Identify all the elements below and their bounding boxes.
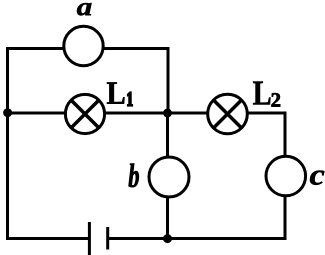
wire: top horizontal branch: [6, 47, 170, 50]
label a: [77, 3, 92, 15]
wire: left vertical branch: [6, 47, 9, 240]
meter b (circle): [149, 157, 189, 197]
wire: middle horizontal branch: [6, 112, 285, 115]
label L2 - subscript 2: [272, 93, 281, 106]
battery cell: short plate: [106, 227, 109, 250]
node: junction on bottom branch: [163, 234, 172, 243]
node J1: junction of L1/L2/b: [163, 109, 172, 118]
wire: bottom left segment to battery: [6, 237, 89, 240]
wire: right vertical branch: [284, 112, 287, 241]
wire: vertical from top branch to node J1: [167, 47, 170, 113]
wire: branch through meter b: [166, 113, 169, 239]
lamp L2 (circle with X): [208, 94, 248, 134]
label L1 - letter L: [107, 82, 125, 103]
meter a (circle): [64, 26, 103, 65]
battery cell: long plate: [88, 222, 91, 255]
lamp L1 (circle with X): [65, 94, 104, 133]
meter c (circle): [266, 156, 306, 196]
wire: bottom right segment from battery: [108, 237, 287, 240]
label c: [310, 170, 324, 184]
node: junction dot on left branch: [3, 108, 12, 117]
label b: [129, 164, 139, 188]
label L2 - letter L: [253, 82, 270, 105]
label L1 - subscript 1: [128, 92, 132, 105]
